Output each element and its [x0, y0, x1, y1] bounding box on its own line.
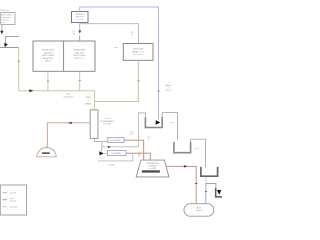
settling tank 1: [145, 112, 162, 127]
svg-text:m3 p.u.: m3 p.u.: [165, 90, 172, 92]
svg-text:solvent: solvent: [10, 200, 17, 203]
wire blue: box B top to settling tank: [80, 7, 159, 120]
arrow left on it: [68, 122, 72, 125]
wire box A down: [1, 25, 3, 32]
wire tan: column feed drop: [94, 91, 96, 110]
svg-text:AFVOER: AFVOER: [76, 13, 85, 16]
svg-text:INSTALLATIE: INSTALLATIE: [42, 49, 55, 52]
settling tank 3: [201, 167, 218, 176]
stock box 1: [108, 138, 124, 143]
svg-text:VOORRAAD 1: VOORRAAD 1: [110, 139, 122, 142]
svg-text:t. p.j.: t. p.j.: [1, 21, 6, 24]
svg-text:afvalstoffen: afvalstoffen: [63, 95, 73, 98]
svg-text:UNIT B + C: UNIT B + C: [74, 58, 85, 60]
wire tan: box C down and to column feed: [95, 60, 139, 101]
label right of box2: [138, 152, 141, 157]
black arrow into box 2: [99, 151, 103, 155]
svg-text:t p.j.: t p.j.: [72, 32, 76, 35]
wire red: box2 to treatment: [126, 153, 150, 160]
svg-text:KOLOM: KOLOM: [103, 124, 111, 126]
legend box: [0, 185, 26, 215]
AWZI pill: [184, 204, 214, 217]
wire: column bottom to stock boxes: [95, 138, 108, 141]
svg-text:2010 rev: 2010 rev: [0, 9, 9, 12]
wire red: box1 to treatment: [124, 140, 144, 160]
arrow down into unit: [78, 30, 81, 33]
box A (waste supplier): [1, 13, 15, 25]
pump P1: [0, 37, 19, 48]
column (stripper): [90, 110, 98, 138]
settling tank 4 (edge): [216, 188, 222, 197]
svg-text:WEER: WEER: [85, 104, 92, 106]
wire tank1 to tank2: [162, 112, 177, 140]
label tanks: [63, 94, 73, 99]
svg-text:VACUUM: VACUUM: [44, 51, 53, 54]
wire pump to header (feed, tan): [18, 48, 20, 91]
arrow on return: [108, 146, 111, 148]
svg-text:2 x 800 l: 2 x 800 l: [108, 165, 116, 167]
box B export: [72, 12, 89, 23]
treatment trapezoid: [136, 160, 169, 177]
arrow into pump: [0, 31, 3, 35]
stock box 2: [107, 150, 126, 155]
svg-text:afv. 1: afv. 1: [171, 122, 175, 124]
tick: [137, 80, 139, 82]
svg-text:AFVAL 1 en 2: AFVAL 1 en 2: [132, 50, 145, 53]
label between red wires: [147, 136, 151, 141]
wire tan header to column: [19, 90, 95, 92]
wire salmon: column to flare dome: [47, 123, 90, 147]
svg-text:p.m.: p.m.: [114, 47, 118, 49]
svg-text:afv. 2: afv. 2: [195, 148, 199, 150]
svg-text:afv.: afv.: [138, 153, 141, 155]
label tank B: [85, 96, 92, 105]
svg-text:STOOM: STOOM: [76, 19, 84, 21]
svg-text:influent: influent: [196, 209, 203, 212]
distillation unit twin box: [33, 41, 95, 71]
label above box1 right: [130, 130, 135, 135]
svg-text:voeding: voeding: [10, 207, 17, 209]
label above box C: [130, 31, 134, 36]
wire tank3 to pill: [205, 177, 207, 184]
svg-text:solvent: solvent: [10, 192, 17, 195]
wire branch to tank4: [206, 184, 216, 188]
svg-text:o.a. AVR: o.a. AVR: [149, 167, 157, 170]
svg-text:DESTILLATIE: DESTILLATIE: [73, 54, 86, 57]
svg-text:AFVALSTR.: AFVALSTR.: [43, 57, 54, 60]
svg-text:COND.: COND.: [104, 118, 111, 120]
inlet triangle tank1: [156, 120, 161, 124]
svg-text:TANK: TANK: [85, 96, 91, 99]
tick: [18, 60, 20, 62]
svg-text:20 TON/JR: 20 TON/JR: [133, 54, 143, 56]
svg-text:INSTALLATIE: INSTALLATIE: [73, 49, 86, 52]
svg-text:VACUUM: VACUUM: [75, 51, 84, 54]
wire blue-grey: box B to box C: [80, 24, 138, 44]
arrow on red: [184, 165, 188, 168]
svg-text:REGULIER: REGULIER: [133, 49, 144, 51]
box C regular waste: [123, 44, 153, 61]
tick on red drop: [195, 183, 197, 185]
settling tank 2: [190, 139, 192, 142]
wire grey under box2: [98, 154, 133, 161]
label left of trapezoid: [138, 153, 141, 155]
wire blue: box B bottom to unit: [79, 23, 81, 31]
svg-text:dest.: dest.: [130, 133, 135, 136]
label column: [100, 118, 115, 126]
svg-text:VOORRAAD 2: VOORRAAD 2: [111, 152, 123, 155]
arrow right on header: [29, 89, 33, 92]
tick on blue drop: [157, 90, 160, 92]
wire tan: unit outlets down: [47, 71, 49, 90]
label effluent: [165, 84, 172, 92]
svg-text:AWZI: AWZI: [197, 206, 202, 209]
label 2,2: [72, 31, 76, 35]
flare dome: [37, 148, 57, 157]
svg-text:CONDENSATIE: CONDENSATIE: [100, 120, 115, 123]
wire grey return to settling tank 1: [102, 113, 146, 147]
wire red: treatment to AWZI pill: [166, 166, 196, 203]
wire tank2 to tank3: [191, 139, 206, 167]
svg-text:DESTILLATIE: DESTILLATIE: [42, 54, 55, 57]
svg-text:UNIT A: UNIT A: [45, 60, 52, 63]
